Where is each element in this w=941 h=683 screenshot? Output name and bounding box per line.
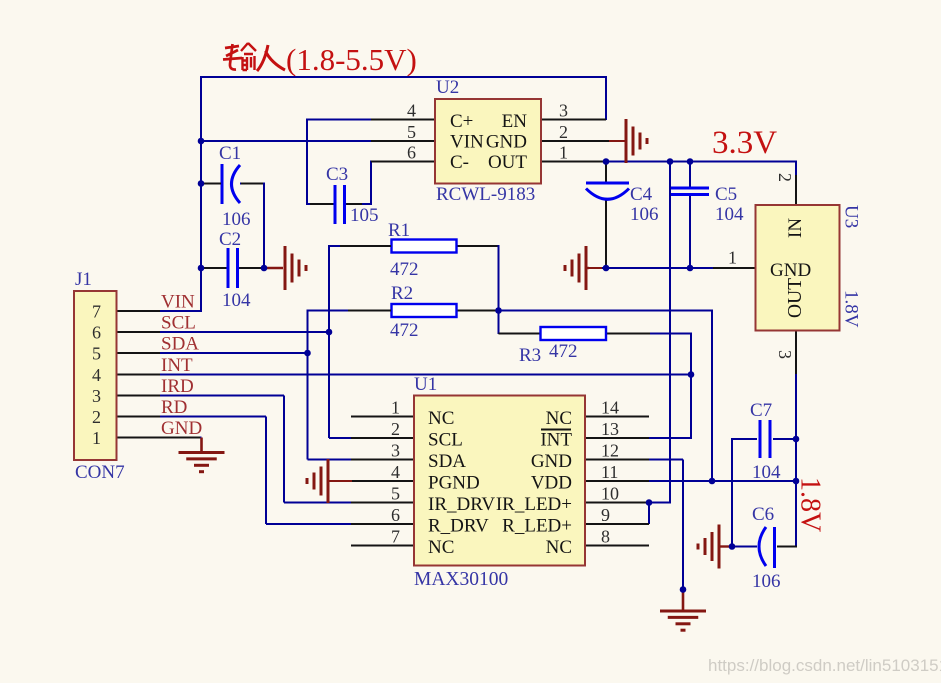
label C1 <box>219 143 241 164</box>
label U3 designator <box>841 205 862 228</box>
ground near C6 <box>698 525 733 569</box>
wire R3 right lead <box>606 333 651 335</box>
svg-text:GND: GND <box>531 451 572 472</box>
svg-text:106: 106 <box>222 209 251 230</box>
svg-text:1: 1 <box>391 398 400 418</box>
svg-text:C5: C5 <box>715 184 737 205</box>
svg-text:C-: C- <box>450 152 469 173</box>
svg-text:GND: GND <box>486 132 527 153</box>
svg-text:U3: U3 <box>841 205 862 228</box>
wire R1 left elbow to SCL <box>329 245 352 438</box>
svg-text:GND: GND <box>161 418 202 439</box>
junction 3.3V down <box>667 158 674 165</box>
svg-text:472: 472 <box>549 341 578 362</box>
ground near C2 <box>266 246 306 290</box>
connector J1 body <box>74 291 117 460</box>
label C5 value <box>715 204 744 225</box>
wire 3.3V down to LED+ pins <box>649 162 671 525</box>
power label 1.8V <box>795 477 826 532</box>
label J1 designator <box>75 269 92 290</box>
pins U1 left <box>351 417 415 546</box>
svg-text:NC: NC <box>546 408 572 429</box>
pins U2 left <box>371 120 436 162</box>
junction SCL-R1 <box>326 329 333 336</box>
junction 3.3V C4 <box>603 158 610 165</box>
svg-text:IR_LED+: IR_LED+ <box>496 494 572 515</box>
svg-text:OUT: OUT <box>785 278 806 318</box>
wire C3 right to U2 pin6 <box>346 161 372 206</box>
svg-text:C4: C4 <box>630 184 653 205</box>
svg-text:VDD: VDD <box>531 473 572 494</box>
wire INT row <box>159 374 691 376</box>
pin names U2 <box>450 111 527 173</box>
svg-text:6: 6 <box>407 143 416 163</box>
capacitor C2 <box>203 248 262 288</box>
ground bottom center <box>660 591 706 630</box>
wire 3.3V rail <box>606 162 797 177</box>
junction C7 right <box>793 436 800 443</box>
capacitor C3 <box>310 185 362 224</box>
junction LED+ <box>646 499 653 506</box>
svg-text:106: 106 <box>630 204 659 225</box>
svg-text:VIN: VIN <box>450 132 484 153</box>
svg-text:RD: RD <box>161 397 187 418</box>
label R1 <box>388 220 410 241</box>
label C6 value <box>752 571 781 592</box>
svg-text:3: 3 <box>92 386 101 406</box>
svg-text:MAX30100: MAX30100 <box>414 569 508 590</box>
svg-text:6: 6 <box>391 505 400 525</box>
label R2 value <box>390 320 419 341</box>
pins U1 right <box>584 417 649 546</box>
label C2 value <box>222 290 251 311</box>
wire R3 left lead <box>499 333 541 335</box>
svg-text:3: 3 <box>391 441 400 461</box>
svg-text:2: 2 <box>559 122 568 142</box>
svg-text:OUT: OUT <box>488 152 527 173</box>
label U1 part MAX30100 <box>414 569 508 590</box>
wire IRD net <box>159 396 352 503</box>
wire gnd stub left <box>588 267 602 269</box>
svg-text:NC: NC <box>546 537 572 558</box>
junction INT-R3 <box>688 371 695 378</box>
junction R1R2 <box>495 307 502 314</box>
svg-text:C7: C7 <box>750 400 772 421</box>
pin names U1 right <box>496 408 573 558</box>
svg-text:105: 105 <box>350 205 379 226</box>
svg-text:5: 5 <box>407 122 416 142</box>
op-amp U2 body (RCWL-9183) <box>435 99 541 184</box>
pins U2 right <box>540 120 609 162</box>
svg-text:U1: U1 <box>414 374 437 395</box>
junction C1 <box>198 180 205 187</box>
label U1 designator <box>414 374 437 395</box>
junction VIN/C2 col top <box>198 138 205 145</box>
wire U2 pin5 VIN row <box>201 140 372 142</box>
svg-text:SCL: SCL <box>161 313 196 334</box>
svg-text:C6: C6 <box>752 504 774 525</box>
svg-text:4: 4 <box>407 101 416 121</box>
svg-text:R2: R2 <box>391 283 413 304</box>
label C6 <box>752 504 774 525</box>
label C5 <box>715 184 737 205</box>
wire C2 row <box>201 267 264 269</box>
svg-text:C3: C3 <box>326 164 348 185</box>
capacitor C6 <box>759 527 775 568</box>
svg-text:104: 104 <box>222 290 251 311</box>
svg-text:NC: NC <box>428 537 454 558</box>
svg-text:5: 5 <box>92 344 101 364</box>
wire J1 gnd lead <box>159 437 202 439</box>
pin names U1 left <box>428 408 495 558</box>
svg-text:3.3V: 3.3V <box>712 125 777 161</box>
label R3 value <box>549 341 578 362</box>
svg-text:12: 12 <box>601 441 619 461</box>
junction gnd C5 <box>687 265 694 272</box>
pin U3 IN <box>795 175 797 206</box>
label U3 part 1.8V <box>841 290 862 328</box>
svg-text:R1: R1 <box>388 220 410 241</box>
svg-text:7: 7 <box>92 302 101 322</box>
label R3 <box>519 345 541 366</box>
power label 3.3V <box>712 125 777 161</box>
svg-text:104: 104 <box>715 204 744 225</box>
label R1 value <box>390 259 419 280</box>
svg-text:13: 13 <box>601 419 619 439</box>
wire R3 right to INT <box>650 333 692 335</box>
svg-text:10: 10 <box>601 484 619 504</box>
wire U1 pin12 to gnd <box>649 460 683 590</box>
svg-text:EN: EN <box>502 111 528 132</box>
wire input top rail <box>201 76 607 312</box>
svg-text:PGND: PGND <box>428 473 480 494</box>
wire R1 right lead <box>457 245 499 247</box>
svg-text:R_DRV: R_DRV <box>428 516 489 537</box>
wire R2 left elbow to SDA <box>308 310 353 460</box>
pin numbers J1 <box>92 302 101 449</box>
ground left of C4 <box>565 246 589 290</box>
svg-text:IN: IN <box>785 218 806 238</box>
svg-text:RCWL-9183: RCWL-9183 <box>436 184 535 205</box>
svg-text:1: 1 <box>92 428 101 448</box>
svg-text:2: 2 <box>391 419 400 439</box>
svg-text:https://blog.csdn.net/lin51031: https://blog.csdn.net/lin5103151 <box>708 656 941 675</box>
capacitor C1 <box>203 164 263 204</box>
junction 3.3V C5 <box>687 158 694 165</box>
wire INT down to U1 pin13 <box>649 333 692 439</box>
pin U3 GND <box>713 267 756 269</box>
wire C1 row <box>201 183 221 185</box>
svg-text:2: 2 <box>775 173 795 182</box>
svg-text:GND: GND <box>770 260 811 281</box>
wire VIN to J1 pin7 <box>159 310 202 312</box>
svg-text:IR_DRV: IR_DRV <box>428 494 495 515</box>
wire VDD 1.8V row <box>649 480 797 482</box>
wire 1.8V vertical <box>795 374 797 547</box>
label U2 designator <box>436 77 459 98</box>
junction gnd C4 <box>603 265 610 272</box>
pin U1 PGND stub <box>329 480 352 482</box>
svg-text:1: 1 <box>728 248 737 268</box>
junction VDD R1R2 <box>709 478 716 485</box>
wire R1-R2 common <box>498 245 500 334</box>
svg-text:IRD: IRD <box>161 376 194 397</box>
ground at U2 pin2 <box>626 119 647 163</box>
label C4 value <box>630 204 659 225</box>
ground below J1 <box>179 438 225 472</box>
capacitor C5 <box>671 188 709 195</box>
svg-text:C2: C2 <box>219 229 241 250</box>
chip U1 body (MAX30100) <box>414 396 585 566</box>
svg-text:R3: R3 <box>519 345 541 366</box>
svg-text:1.8V: 1.8V <box>795 477 826 532</box>
watermark <box>708 656 941 675</box>
label C7 <box>750 400 772 421</box>
svg-text:4: 4 <box>391 462 400 482</box>
junction bottom gnd <box>680 586 687 593</box>
svg-text:C+: C+ <box>450 111 473 132</box>
wire gnd row right <box>601 267 714 269</box>
svg-text:1.8V: 1.8V <box>841 290 862 328</box>
wire U3 out down <box>795 331 797 376</box>
svg-text:SDA: SDA <box>428 451 466 472</box>
label C3 <box>326 164 348 185</box>
wire R2 right lead <box>457 310 499 312</box>
junction SDA-R2 <box>304 350 311 357</box>
svg-text:11: 11 <box>601 462 618 482</box>
svg-text:CON7: CON7 <box>75 462 125 483</box>
wire SDA row <box>159 352 308 354</box>
svg-text:106: 106 <box>752 571 781 592</box>
capacitor C4 <box>586 183 629 199</box>
svg-text:8: 8 <box>601 527 610 547</box>
svg-text:472: 472 <box>390 259 419 280</box>
title text 输入(1.8-5.5V) <box>223 42 417 77</box>
svg-text:INT: INT <box>161 355 193 376</box>
svg-text:104: 104 <box>752 462 781 483</box>
junction C2 right <box>261 265 268 272</box>
wire U2 pin4 branch <box>307 119 372 206</box>
wire C4 leads <box>605 162 607 269</box>
wire R2 common to VDD <box>499 311 714 483</box>
net labels J1 <box>161 292 202 440</box>
wire C6 left lead <box>732 546 757 548</box>
wire RD net <box>159 417 352 525</box>
resistor R1 <box>340 240 457 253</box>
svg-text:(1.8-5.5V): (1.8-5.5V) <box>286 42 417 77</box>
pins J1 <box>116 311 200 438</box>
label R2 <box>391 283 413 304</box>
pin numbers U3 <box>728 173 795 359</box>
svg-text:4: 4 <box>92 365 101 385</box>
wire C5 leads <box>689 162 691 269</box>
label C7 value <box>752 462 781 483</box>
svg-text:U2: U2 <box>436 77 459 98</box>
regulator U3 body <box>756 205 840 331</box>
wire C7 right lead <box>773 438 797 440</box>
pin numbers U1 <box>391 398 619 547</box>
wire C7 left lead <box>732 438 757 547</box>
svg-text:SCL: SCL <box>428 430 463 451</box>
junction VDD U3 <box>793 478 800 485</box>
wire C3 left lead <box>306 203 334 205</box>
svg-text:C1: C1 <box>219 143 241 164</box>
svg-text:J1: J1 <box>75 269 92 290</box>
svg-text:3: 3 <box>775 350 795 359</box>
label C1 value <box>222 209 251 230</box>
svg-text:SDA: SDA <box>161 334 199 355</box>
svg-text:6: 6 <box>92 323 101 343</box>
svg-text:INT: INT <box>540 430 572 451</box>
pin names U3 <box>770 218 811 318</box>
label C4 <box>630 184 653 205</box>
pin U2 gnd stub <box>609 140 625 142</box>
capacitor C7 <box>760 420 770 458</box>
svg-text:1: 1 <box>559 143 568 163</box>
svg-text:R_LED+: R_LED+ <box>502 516 572 537</box>
wire C6 right lead <box>777 546 797 548</box>
junction C6 left <box>729 543 736 550</box>
svg-text:14: 14 <box>601 398 619 418</box>
label U2 part number <box>436 184 535 205</box>
svg-text:5: 5 <box>391 484 400 504</box>
wire SCL row <box>159 331 329 333</box>
svg-text:2: 2 <box>92 407 101 427</box>
svg-text:9: 9 <box>601 505 610 525</box>
svg-text:472: 472 <box>390 320 419 341</box>
label C3 value <box>350 205 379 226</box>
ground at U1 PGND <box>307 459 328 503</box>
svg-text:7: 7 <box>391 527 400 547</box>
svg-text:3: 3 <box>559 101 568 121</box>
label C2 <box>219 229 241 250</box>
pin numbers U2 <box>407 101 568 163</box>
resistor R3 <box>541 327 607 340</box>
junction C2 <box>198 265 205 272</box>
svg-text:NC: NC <box>428 408 454 429</box>
label J1 part CON7 <box>75 462 125 483</box>
svg-text:VIN: VIN <box>161 292 195 313</box>
wire C1 right down to C2 row <box>240 184 265 269</box>
resistor R2 <box>348 304 457 317</box>
